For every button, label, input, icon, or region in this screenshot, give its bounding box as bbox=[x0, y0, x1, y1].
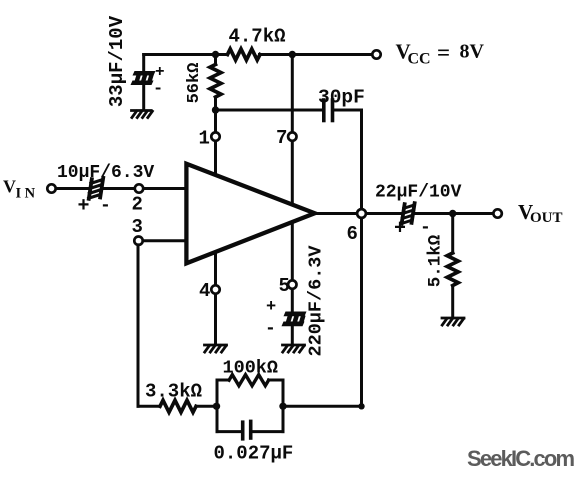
wire 220uF bottom lead bbox=[291, 326, 294, 344]
resistor R 4.7k zigzag bbox=[228, 49, 260, 60]
capacitor C 33uF hatched electrolytic bbox=[131, 71, 156, 85]
capacitor C 10uF hatched electrolytic tilted bbox=[89, 178, 104, 199]
svg-text:8V: 8V bbox=[460, 41, 485, 63]
wire top rail left segment bbox=[144, 53, 228, 56]
svg-text:33μF/10V: 33μF/10V bbox=[106, 15, 128, 107]
wire pin3 vertical down bbox=[137, 245, 140, 406]
wire parallel network right bar bbox=[282, 380, 285, 432]
wire parallel network top branch left lead bbox=[217, 379, 229, 382]
svg-text:+: + bbox=[266, 298, 276, 317]
wire pin1 pin4 vertical line bbox=[214, 110, 217, 344]
wire feedback bottom horizontal bbox=[283, 405, 362, 408]
svg-text:4.7kΩ: 4.7kΩ bbox=[229, 26, 286, 48]
svg-text:-: - bbox=[100, 196, 111, 216]
wire 33uF top lead bbox=[142, 55, 145, 72]
wire parallel network top branch right lead bbox=[269, 379, 284, 382]
terminal Vin open circle bbox=[47, 184, 55, 192]
svg-text:-: - bbox=[153, 80, 163, 99]
svg-text:+: + bbox=[394, 218, 406, 241]
junction dot top rail / 56k bbox=[212, 51, 219, 58]
resistor R 56k vertical with leads bbox=[214, 55, 217, 65]
capacitor C 30pF right plate bbox=[331, 100, 335, 121]
svg-text:=: = bbox=[437, 40, 450, 65]
junction dot feedback corner bbox=[358, 403, 364, 409]
wire opamp output to node6 and 22uF bbox=[315, 212, 401, 215]
wire pin3 stub bbox=[139, 239, 187, 242]
junction dot parallel network left bbox=[213, 403, 220, 410]
svg-text:5: 5 bbox=[279, 275, 290, 297]
svg-text:3.3kΩ: 3.3kΩ bbox=[145, 381, 202, 403]
svg-text:56kΩ: 56kΩ bbox=[185, 63, 204, 104]
ground below 5.1k bbox=[442, 318, 464, 325]
svg-text:6: 6 bbox=[347, 223, 358, 245]
wire Vin to 10uF bbox=[56, 187, 90, 190]
svg-text:4: 4 bbox=[199, 280, 210, 302]
svg-text:SeekIC.com: SeekIC.com bbox=[467, 446, 575, 471]
resistor R 3.3k zigzag bbox=[160, 400, 196, 412]
wire right vertical from 30pF corner down through node6 to feedback corner bbox=[360, 110, 363, 406]
capacitor C 0.027uF right plate bbox=[249, 421, 253, 438]
svg-text:OUT: OUT bbox=[530, 210, 563, 226]
svg-text:V: V bbox=[3, 177, 16, 197]
op-amp U1 triangle bbox=[186, 164, 314, 264]
junction dot output / 5.1k bbox=[449, 210, 456, 217]
ground below 220uF bbox=[283, 345, 305, 352]
wire pin7 pin5 vertical line bbox=[291, 55, 294, 312]
svg-text:22μF/10V: 22μF/10V bbox=[375, 183, 462, 203]
pin 4 open circle bbox=[211, 285, 219, 293]
svg-text:-: - bbox=[265, 319, 276, 339]
junction dot 56k bottom bbox=[212, 106, 219, 113]
pin 1 open circle bbox=[211, 132, 219, 140]
svg-text:10μF/6.3V: 10μF/6.3V bbox=[57, 163, 154, 183]
svg-text:7: 7 bbox=[276, 127, 287, 149]
svg-text:3: 3 bbox=[132, 216, 143, 238]
svg-text:100kΩ: 100kΩ bbox=[223, 358, 279, 379]
svg-text:5.1kΩ: 5.1kΩ bbox=[426, 234, 446, 287]
junction dot top rail / pin7 line bbox=[289, 51, 296, 58]
svg-text:+: + bbox=[78, 195, 90, 218]
wire 30pF to right corner bbox=[335, 109, 362, 112]
capacitor C 0.027uF left plate bbox=[241, 422, 245, 439]
pin 5 open circle bbox=[288, 280, 296, 288]
svg-text:CC: CC bbox=[408, 51, 431, 68]
capacitor C 22uF hatched electrolytic tilted bbox=[402, 203, 415, 224]
ground below 33uF bbox=[132, 111, 153, 118]
wire 22uF to Vout bbox=[416, 212, 494, 215]
wire parallel network bottom branch right bbox=[253, 430, 283, 433]
wire 33uF bottom lead bbox=[142, 85, 145, 110]
wire parallel network left bar bbox=[216, 380, 219, 432]
terminal Vcc open circle bbox=[372, 50, 380, 58]
junction dot parallel network right bbox=[279, 403, 286, 410]
svg-text:+: + bbox=[155, 63, 165, 81]
resistor R 100k zigzag bbox=[229, 375, 269, 386]
wire 3.3k right lead bbox=[196, 405, 217, 408]
pin 7 open circle bbox=[288, 132, 296, 140]
node 6 open circle bbox=[357, 209, 366, 218]
svg-text:220μF/6.3V: 220μF/6.3V bbox=[306, 245, 327, 357]
wire 3.3k left lead from corner bbox=[138, 405, 160, 408]
pin 2 open circle bbox=[135, 184, 143, 192]
wire 10uF to opamp pin2 bbox=[103, 187, 186, 190]
wire top rail right segment to Vcc terminal bbox=[260, 53, 373, 56]
capacitor C 220uF hatched electrolytic bbox=[282, 312, 307, 327]
svg-text:0.027μF: 0.027μF bbox=[214, 443, 294, 465]
capacitor C 30pF left plate bbox=[322, 100, 326, 121]
svg-text:2: 2 bbox=[132, 194, 143, 216]
terminal Vout open circle bbox=[493, 209, 501, 217]
svg-text:IN: IN bbox=[16, 186, 39, 202]
pin 3 open circle bbox=[134, 237, 142, 245]
resistor R 5.1k vertical with leads bbox=[451, 214, 454, 254]
ground below pin 4 bbox=[205, 345, 227, 352]
wire lower rail to 30pF bbox=[216, 109, 322, 112]
svg-text:30pF: 30pF bbox=[318, 87, 365, 109]
svg-text:1: 1 bbox=[199, 128, 210, 150]
wire parallel network bottom branch left bbox=[217, 430, 241, 433]
